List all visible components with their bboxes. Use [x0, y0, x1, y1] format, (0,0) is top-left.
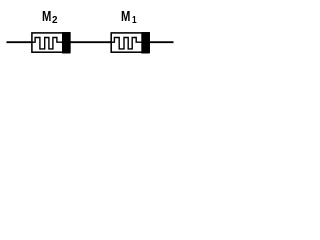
label M2 [42, 10, 51, 24]
label M1 [121, 10, 130, 24]
memristor M1 body outline [111, 33, 149, 52]
wire middle segment [69, 41, 112, 43]
memristor M2 polarity bar [62, 32, 70, 53]
memristor M1 [111, 32, 149, 53]
wire right lead [148, 41, 174, 43]
memristor M1 polarity bar [141, 32, 149, 53]
memristor M2 meander [32, 38, 63, 49]
memristor M2 body outline [32, 33, 70, 52]
circuit: two memristors in series [0, 0, 180, 66]
memristor M1 meander [111, 38, 142, 49]
wire left lead [7, 41, 33, 43]
memristor M2 [32, 32, 70, 53]
